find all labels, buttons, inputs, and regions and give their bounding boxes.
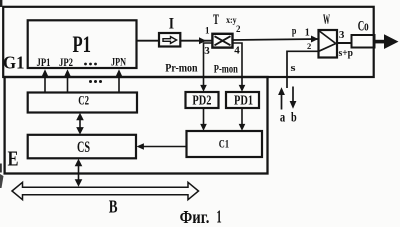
- wire s input to W pin 2: [287, 51, 319, 88]
- svg-text:4: 4: [234, 45, 240, 57]
- block PD1: [226, 92, 259, 108]
- wire T pin3 to PD2: [200, 43, 212, 92]
- svg-text:W: W: [323, 12, 330, 28]
- wire W to Co: [337, 42, 352, 44]
- scan artifact left edge lower: [0, 174, 4, 188]
- isolator inner arrow glyph: [163, 37, 177, 44]
- svg-text:P-mon: P-mon: [214, 61, 238, 75]
- scan artifact left edge mid: [0, 164, 2, 173]
- wire/arrow C2 to P1 pin JPN: [116, 69, 123, 92]
- svg-text:a: a: [280, 111, 285, 126]
- connector Co box: [352, 35, 375, 48]
- box G1 (outer top unit): [3, 7, 374, 77]
- combiner W triangle: [319, 31, 336, 44]
- arrow a (input up): [278, 87, 285, 109]
- svg-text:1: 1: [305, 28, 310, 39]
- arrow PD1 to C1: [239, 108, 246, 131]
- wire/arrow C2 to P1 pin JP2: [64, 69, 71, 92]
- bus B hollow double arrow: [12, 182, 199, 199]
- isolator I: [159, 33, 180, 47]
- wire P1 to I: [137, 40, 160, 42]
- block PD2: [186, 92, 219, 108]
- ellipsis between bus arrows: [89, 80, 102, 83]
- svg-text:C2: C2: [78, 94, 89, 108]
- svg-text:JPN: JPN: [111, 55, 126, 69]
- svg-text:I: I: [169, 16, 174, 33]
- svg-text:B: B: [109, 196, 118, 216]
- svg-text:b: b: [291, 111, 297, 126]
- svg-text:C1: C1: [219, 137, 229, 151]
- coupler T cross lines: [215, 36, 231, 45]
- wire T to W with arrowhead: [233, 36, 319, 43]
- svg-text:3: 3: [204, 45, 210, 57]
- svg-text:JP1: JP1: [37, 55, 51, 69]
- box E (outer lower unit): [5, 77, 268, 174]
- svg-text:p: p: [292, 26, 297, 37]
- svg-text:Pr-mon: Pr-mon: [165, 61, 198, 75]
- svg-text:P1: P1: [73, 32, 92, 57]
- ellipsis inside P1: [84, 63, 97, 66]
- wire/arrow C2 to P1 pin JP1: [42, 69, 49, 92]
- svg-text:3: 3: [339, 29, 345, 41]
- block CS: [28, 135, 136, 159]
- svg-text:PD1: PD1: [234, 92, 253, 107]
- svg-text:2: 2: [307, 41, 311, 51]
- scan artifact top-left corner: [0, 0, 2, 7]
- combiner W box: [319, 30, 338, 58]
- svg-text:JP2: JP2: [59, 55, 73, 69]
- svg-text:1: 1: [216, 207, 221, 227]
- svg-text:PD2: PD2: [192, 92, 211, 107]
- svg-text:G1: G1: [3, 53, 25, 73]
- block P1: [28, 20, 137, 68]
- arrow b (output down): [290, 87, 297, 109]
- coupler T: [212, 34, 232, 48]
- wire I to T with arrowhead: [180, 37, 212, 44]
- svg-text:E: E: [8, 147, 19, 171]
- svg-text:s+p: s+p: [339, 48, 354, 59]
- svg-text:T: T: [213, 12, 219, 28]
- svg-text:1: 1: [205, 25, 210, 35]
- arrow C1 to CS: [137, 143, 187, 150]
- svg-text:CS: CS: [77, 139, 90, 156]
- double arrow CS-B bus: [75, 159, 83, 187]
- svg-text:s: s: [291, 63, 296, 74]
- wire T pin4 to PD1: [233, 43, 246, 92]
- svg-text:2: 2: [236, 24, 241, 34]
- arrow PD2 to C1: [200, 108, 207, 131]
- thick output arrow: [375, 34, 399, 49]
- svg-text:Фиг.: Фиг.: [180, 207, 210, 227]
- block C2: [28, 93, 137, 113]
- block C1: [187, 131, 263, 157]
- svg-text:Co: Co: [358, 19, 369, 35]
- double arrow C2-CS: [76, 113, 84, 135]
